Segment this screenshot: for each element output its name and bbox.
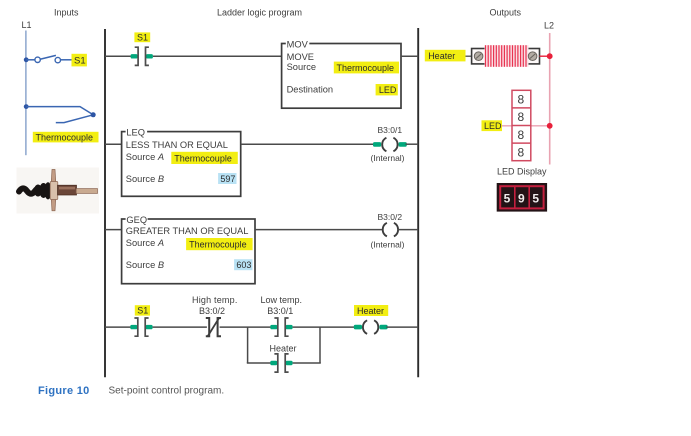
label Low temp. [261,295,303,305]
svg-text:Destination: Destination [287,85,334,95]
node L2 [544,21,554,31]
svg-text:Source B: Source B [126,260,164,270]
svg-text:8: 8 [518,145,525,159]
contact S1 rung4 [130,318,152,336]
wire branch bottom right [293,362,321,364]
heater element [472,45,540,67]
left power rail [104,29,106,377]
coil B3:0/1 energized [373,138,407,152]
label B3:0/1 coil [378,125,403,135]
svg-text:Thermocouple: Thermocouple [189,240,247,250]
svg-text:Source A: Source A [126,238,164,248]
wire rung2 left [105,143,122,145]
svg-text:B3:0/1: B3:0/1 [267,306,293,316]
header Ladder logic program [217,8,302,18]
wire rung4 seg2 [153,326,207,328]
header Inputs [54,8,79,18]
label S1 rung1 [134,32,150,42]
label Thermocouple input [33,132,99,143]
label B3:0/1 contact [267,306,293,316]
wire heater label to element [466,55,473,57]
svg-text:LED: LED [484,121,502,131]
label (Internal) rung2 [371,153,405,163]
svg-text:Source A: Source A [126,152,164,162]
svg-text:MOVE: MOVE [287,52,314,62]
svg-text:LED: LED [379,85,397,95]
svg-text:S1: S1 [137,33,148,43]
label Thermocouple LEQ sourceA [171,152,238,164]
value 597 LEQ sourceB [218,173,236,184]
caption text [109,386,225,397]
label S1 input [72,54,87,67]
wire rung3 right [255,229,383,231]
node LED junction [547,123,553,129]
box GEQ U3 [122,214,255,283]
label (Internal) rung3 [371,240,405,250]
label B3:0/2 contact [199,306,225,316]
svg-text:GREATER THAN OR EQUAL: GREATER THAN OR EQUAL [126,226,249,236]
thermocouple symbol [24,104,96,122]
wire rung4 to rail [386,326,418,328]
wire rung2 right [241,143,375,145]
svg-text:5: 5 [504,192,511,206]
header Outputs [490,8,522,18]
svg-text:Thermocouple: Thermocouple [36,132,94,142]
wire rung1 right [401,55,418,57]
wire rung4 seg3 [220,326,271,328]
svg-text:L1: L1 [22,20,32,30]
svg-text:Outputs: Outputs [490,8,522,18]
label LED MOV destination [376,84,398,95]
wire rung3 to rail [398,229,419,231]
node L1 [22,20,32,30]
svg-text:8: 8 [518,93,525,107]
label Heater coil rung4 [354,305,388,316]
svg-text:Source: Source [287,62,316,72]
contact Heater branch [270,354,292,372]
contact NC B3:0/2 high temp [206,317,221,337]
value 603 GEQ sourceB [234,259,252,270]
svg-text:Thermocouple: Thermocouple [174,153,232,163]
svg-text:Low temp.: Low temp. [261,295,303,305]
wire rung4 left [105,326,131,328]
wire rung2 to rail [406,143,419,145]
wire branch bottom left [247,362,271,364]
wire branch right vertical [319,327,321,363]
svg-text:5: 5 [532,192,539,206]
svg-text:B3:0/2: B3:0/2 [378,212,403,222]
svg-text:Heater: Heater [357,306,384,316]
svg-text:8: 8 [518,128,525,142]
svg-text:9: 9 [518,192,525,206]
svg-text:L2: L2 [544,21,554,31]
svg-text:597: 597 [220,174,235,184]
svg-text:Heater: Heater [428,51,455,61]
wire rung3 left [105,229,122,231]
LED display readout 595 [497,183,547,212]
svg-text:Heater: Heater [270,343,297,353]
caption Figure 10 [38,385,90,397]
contact S1 rung1 [131,47,153,65]
svg-text:603: 603 [236,260,251,270]
label High temp. [192,295,238,305]
label S1 rung4 [135,305,150,316]
box MOV U1 [282,39,401,108]
svg-text:High temp.: High temp. [192,295,238,305]
svg-text:8: 8 [518,110,525,124]
svg-text:LESS THAN OR EQUAL: LESS THAN OR EQUAL [126,140,228,150]
svg-text:B3:0/1: B3:0/1 [378,125,403,135]
svg-text:LEQ: LEQ [126,128,145,138]
svg-text:GEQ: GEQ [126,215,147,225]
wire branch left vertical [247,327,249,363]
wire heater to L2 [540,55,550,57]
svg-text:Figure 10: Figure 10 [38,385,90,397]
L2 rail [549,33,551,165]
label Thermocouple GEQ sourceA [186,238,253,250]
svg-text:B3:0/2: B3:0/2 [199,306,225,316]
switch S1 [24,55,72,62]
wire LED label line [502,125,550,127]
svg-text:Set-point control program.: Set-point control program. [109,386,225,397]
svg-text:Inputs: Inputs [54,8,79,18]
thermocouple photo [17,168,100,214]
svg-text:Ladder logic program: Ladder logic program [217,8,302,18]
right power rail [417,28,419,377]
wire rung4 seg4 [293,326,356,328]
LED digit stack [512,90,531,160]
wire rung1 mid [153,55,282,57]
svg-text:(Internal): (Internal) [371,153,405,163]
label Thermocouple MOV source [334,62,399,74]
coil Heater energized [354,320,388,334]
box LEQ U2 [122,127,241,196]
label LED output [482,120,503,131]
node heater junction [547,53,553,59]
svg-text:S1: S1 [74,56,86,67]
label Heater branch contact [270,343,297,353]
svg-text:Thermocouple: Thermocouple [337,63,395,73]
svg-text:S1: S1 [137,306,148,316]
label B3:0/2 coil [378,212,403,222]
wire rung1 left [105,55,131,57]
svg-text:Source B: Source B [126,174,164,184]
wire input L1 rail [25,31,27,156]
svg-text:LED Display: LED Display [497,167,547,177]
svg-text:MOV: MOV [287,40,309,50]
coil B3:0/2 [383,223,398,237]
label Heater output [425,50,466,62]
svg-text:(Internal): (Internal) [371,240,405,250]
contact B3:0/1 low temp [270,318,292,336]
label LED Display [497,167,547,177]
